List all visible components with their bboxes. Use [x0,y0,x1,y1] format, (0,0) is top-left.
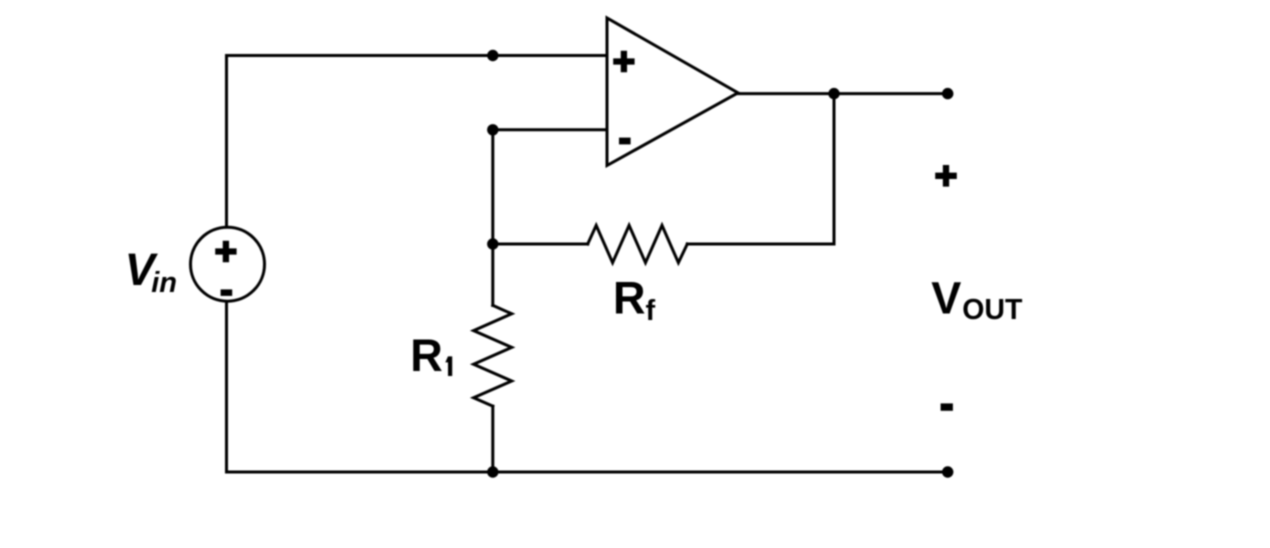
wire: op-amp output rail [738,92,948,95]
svg-text:R: R [613,273,646,324]
wire: inverting node vertical [491,130,494,306]
op-amp + input symbol [613,51,634,72]
wire: feedback vertical from output [833,94,836,244]
svg-text:V: V [931,273,961,324]
node: inverting input dot [487,124,498,135]
node: output junction dot [828,88,839,99]
op-amp U1 triangle [607,18,738,166]
svg-text:f: f [646,295,656,327]
node: feedback junction dot [487,238,498,249]
wire: bottom rail [227,471,948,474]
resistor R1 zigzag [474,305,512,406]
svg-text:R: R [410,330,443,381]
wire: top rail from source to op-amp + input [227,56,608,227]
wire: feedback left segment [493,243,588,246]
node: bottom junction dot [487,466,498,477]
source polarity + inside circle [215,241,236,262]
wire: left rail below source to bottom rail [225,303,228,473]
output polarity - [941,403,953,410]
node: junction dot on top rail [487,50,498,61]
output polarity + [935,165,957,187]
svg-text:in: in [151,267,177,299]
voltage source V_in circle [191,227,265,301]
node: output terminal dot [942,88,953,99]
node: bottom terminal dot [942,466,953,477]
wire: inverting input stub [493,128,607,131]
wire: feedback right segment [687,243,834,246]
svg-text:OUT: OUT [962,294,1023,326]
op-amp - input symbol [619,138,631,145]
resistor Rf zigzag [588,225,688,262]
wire: R1 bottom lead [491,406,494,472]
source polarity - inside circle [221,289,233,296]
